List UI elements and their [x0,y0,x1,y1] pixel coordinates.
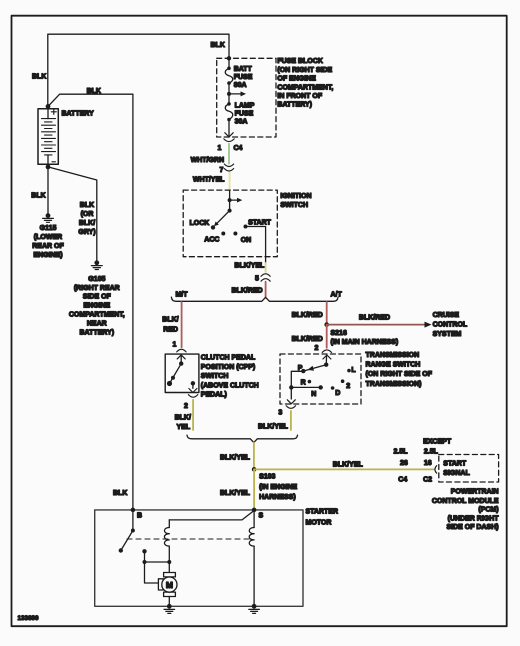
svg-text:C4: C4 [398,476,407,483]
svg-text:S216: S216 [331,330,347,337]
svg-text:S103: S103 [259,474,275,481]
svg-text:POSITION (CPP): POSITION (CPP) [201,364,255,371]
wire to fuse block exit [228,120,230,136]
svg-text:BLK/YEL: BLK/YEL [234,262,265,269]
svg-text:S: S [259,513,264,520]
svg-text:D: D [335,390,340,397]
svg-text:BATTERY: BATTERY [62,110,95,117]
svg-text:(OR: (OR [81,211,94,218]
svg-text:STARTER: STARTER [306,509,339,516]
svg-text:N: N [311,391,316,398]
svg-text:2: 2 [315,345,319,352]
label POWERTRAIN CONTROL MODULE (PCM) (UNDER RIGHT SIDE OF DASH) [432,488,499,531]
svg-text:BLK: BLK [31,193,45,200]
svg-text:SWITCH: SWITCH [280,202,308,209]
svg-text:CRUISE: CRUISE [433,312,460,319]
svg-text:YEL: YEL [177,424,191,431]
svg-text:BLK/YEL: BLK/YEL [220,455,251,462]
svg-text:BLK/: BLK/ [79,220,95,227]
wire WHT/YEL [229,173,231,191]
label EXCEPT 2.5L 16 C2 column [423,439,452,484]
starter motor box [95,510,303,606]
svg-text:(ON RIGHT SIDE: (ON RIGHT SIDE [277,67,332,74]
node battery negative terminal [46,165,51,170]
connector range switch cavity 3 (cup) [286,406,295,409]
svg-text:FUSE: FUSE [235,110,254,117]
svg-text:2.5L: 2.5L [424,449,439,456]
wire BLK/YEL S103 to PCM [254,468,433,470]
svg-text:(ABOVE CLUTCH: (ABOVE CLUTCH [201,382,259,389]
wire S to windings [169,511,254,520]
svg-text:ENGINE: ENGINE [83,303,110,310]
svg-text:3: 3 [278,410,282,417]
svg-text:M/T: M/T [176,291,189,298]
svg-text:BLK: BLK [87,88,101,95]
svg-text:MOTOR: MOTOR [306,519,332,526]
svg-text:BLK/YEL: BLK/YEL [258,423,289,430]
connector 7 (inline) [220,164,234,174]
wire WHT/GRN [228,144,230,164]
brace merge [187,435,298,442]
wire BLK/RED S216 to range switch [326,325,328,348]
svg-text:5: 5 [255,275,259,282]
node S terminal [252,508,257,513]
svg-text:SYSTEM: SYSTEM [433,331,462,338]
ground G105 [91,260,102,269]
wire BLK battery(+) to fuse block [48,34,229,106]
node START [244,225,248,229]
label BLK (OR BLK/ GRY) [78,202,95,236]
svg-text:(ON RIGHT SIDE OF: (ON RIGHT SIDE OF [366,371,433,378]
fuse block box (dashed) [217,58,276,137]
svg-text:1: 1 [218,145,222,152]
svg-text:START: START [248,219,272,226]
splice S216 [324,322,329,327]
wire BLK/YEL from CPP [192,400,194,430]
node fuse block feed junction [227,56,231,60]
connector 5 (inline) [255,274,270,283]
svg-text:GRY): GRY) [78,229,95,236]
svg-text:M: M [166,580,173,590]
ignition switch box (dashed) [183,190,277,257]
svg-text:TRANSMISSION: TRANSMISSION [366,352,420,359]
svg-text:B: B [137,513,142,520]
svg-text:2: 2 [184,403,188,410]
svg-text:BLK/RED: BLK/RED [292,312,323,319]
label FUSE BLOCK callout [277,58,333,108]
svg-text:IGNITION: IGNITION [280,193,311,200]
node 2 [341,379,345,383]
svg-text:(LOWER: (LOWER [34,234,62,241]
svg-text:CONTROL: CONTROL [433,322,468,329]
svg-text:L: L [351,367,356,374]
CPP switch internals [167,355,197,393]
svg-text:P: P [298,365,303,372]
svg-text:80A: 80A [234,82,247,89]
svg-text:WHT/YEL: WHT/YEL [193,176,225,183]
svg-text:ON: ON [241,237,252,244]
ground G115 [43,213,54,222]
ground starter motor [164,604,175,614]
svg-text:IN FRONT OF: IN FRONT OF [277,93,322,100]
label CRUISE CONTROL SYSTEM [433,312,468,338]
svg-text:BLK/YEL: BLK/YEL [220,490,251,497]
connector C4 cavity 1 (arrow into cup) [218,133,243,152]
range switch internals [287,355,331,404]
wire between fuses [228,83,230,104]
node B terminal [131,508,136,513]
battery [38,106,58,166]
node battery positive terminal [46,104,51,109]
node D [331,386,335,390]
svg-text:BLK/: BLK/ [175,415,191,422]
svg-text:2: 2 [346,383,350,390]
svg-text:BLK: BLK [80,202,94,209]
svg-text:PEDAL): PEDAL) [201,392,227,399]
wire BLK/YEL S103 to starter S [253,469,255,510]
svg-text:BLK/: BLK/ [162,317,178,324]
svg-text:A/T: A/T [331,291,343,298]
label TRANSMISSION RANGE SWITCH (ON RIGHT SIDE OF TRANSMISSION) [366,352,433,388]
svg-text:FUSE: FUSE [234,74,253,81]
svg-text:REAR OF: REAR OF [32,243,64,250]
svg-text:C2: C2 [423,476,432,483]
svg-text:26: 26 [400,460,408,467]
svg-text:(IN MAIN HARNESS): (IN MAIN HARNESS) [331,339,399,346]
svg-text:2.5L: 2.5L [394,449,409,456]
node R [308,380,312,384]
svg-text:BLK: BLK [113,490,127,497]
brace split M/T A/T [171,297,338,301]
svg-text:(IN ENGINE: (IN ENGINE [259,484,297,491]
ignition switch internals [211,190,243,229]
wire BLK/YEL from range switch [290,411,292,430]
svg-text:BLK: BLK [211,42,225,49]
svg-text:BLK: BLK [32,74,46,81]
connector CPP cavity 2 (cup) [188,395,197,398]
svg-text:CONTROL MODULE: CONTROL MODULE [432,498,499,505]
PCM box (dashed) [439,455,499,483]
label G115 (LOWER REAR OF ENGINE) [32,225,64,259]
svg-text:BLK/RED: BLK/RED [359,315,390,322]
svg-text:TRANSMISSION): TRANSMISSION) [366,381,422,388]
fuse BATT FUSE 80A [225,66,252,89]
svg-text:BATT: BATT [234,66,253,73]
svg-text:NEAR: NEAR [87,320,107,327]
svg-text:(RIGHT REAR: (RIGHT REAR [74,285,120,292]
motor M [158,562,177,606]
svg-text:LAMP: LAMP [235,103,255,110]
transmission range switch box (dashed) [280,354,361,404]
wire BLK battery(-) to G115 [47,167,49,214]
starter contact pole [142,549,171,583]
svg-text:WHT/GRN: WHT/GRN [191,157,224,164]
svg-text:COMPARTMENT,: COMPARTMENT, [69,312,125,319]
svg-text:EXCEPT: EXCEPT [423,439,452,446]
starter pull-in winding [164,520,169,562]
svg-text:(UNDER RIGHT: (UNDER RIGHT [448,515,500,522]
wire BLK/RED to cruise control (arrow) [327,315,432,328]
svg-text:ACC: ACC [204,236,219,243]
svg-text:RED: RED [163,326,178,333]
node L [347,369,351,373]
svg-text:CLUTCH PEDAL: CLUTCH PEDAL [201,355,256,362]
svg-text:SIDE OF DASH): SIDE OF DASH) [446,524,498,531]
fuse LAMP FUSE 30A [225,102,255,125]
wire fuse feed [228,58,230,68]
clutch pedal position switch box [165,354,199,392]
mechanical linkage (dashed) [127,538,253,540]
svg-text:OF ENGINE: OF ENGINE [277,76,316,83]
svg-text:BATTERY): BATTERY) [79,329,114,336]
svg-text:30A: 30A [235,118,248,125]
wire BLK (OR BLK/GRY) battery(-) to G105 [48,167,97,262]
svg-text:BLK/RED: BLK/RED [292,336,323,343]
wire BLK/RED A/T branch [326,302,328,325]
wire START to box exit [246,227,266,257]
svg-text:SIGNAL: SIGNAL [443,470,470,477]
wire BLK/RED to brace [265,282,267,297]
svg-text:BLK/YEL: BLK/YEL [333,462,364,469]
node ON [233,232,237,236]
svg-text:HARNESS): HARNESS) [259,494,296,501]
svg-text:G115: G115 [40,225,57,232]
svg-text:RANGE SWITCH: RANGE SWITCH [366,362,421,369]
svg-text:START: START [443,461,467,468]
svg-text:133690: 133690 [18,615,40,622]
connector CPP cavity 1 (cup) [177,349,186,352]
splice S103 [252,467,257,472]
label 2.5L 26 C4 column [394,449,409,484]
node fuse tap with arrow [227,91,246,96]
svg-text:POWERTRAIN: POWERTRAIN [451,488,499,495]
svg-text:(PCM): (PCM) [478,507,498,514]
label G105 (RIGHT REAR SIDE OF ENGINE COMPARTMENT, NEAR BATTERY) [69,276,125,336]
label CLUTCH PEDAL POSITION (CPP) SWITCH (ABOVE CLUTCH PEDAL) [201,355,259,399]
svg-text:16: 16 [424,460,432,467]
svg-text:COMPARTMENT,: COMPARTMENT, [277,84,333,91]
svg-text:R: R [301,379,306,386]
svg-text:1: 1 [173,342,177,349]
svg-text:BLK/RED: BLK/RED [232,288,263,295]
starter solenoid contact switch (B side) [119,510,135,553]
svg-text:SIDE OF: SIDE OF [83,294,112,301]
svg-text:C4: C4 [234,145,243,152]
svg-text:G105: G105 [88,276,105,283]
connector PCM (cup) [435,466,437,474]
svg-text:7: 7 [220,167,224,174]
node ACC [221,232,225,236]
svg-text:FUSE BLOCK: FUSE BLOCK [277,58,323,65]
svg-text:LOCK: LOCK [190,220,210,227]
svg-text:BATTERY): BATTERY) [277,102,312,109]
wire BLK/RED M/T branch [181,302,183,347]
ground starter solenoid [249,604,260,614]
wire BLK/YEL below ignition switch [265,257,267,263]
connector range switch cavity 2 (cup) [322,350,331,353]
starter hold-in winding [249,510,254,606]
wire BLK battery(+) to starter B [48,94,133,510]
svg-text:SWITCH: SWITCH [201,373,229,380]
svg-text:ENGINE): ENGINE) [33,252,62,259]
wire BLK/YEL brace to S103 [253,443,255,470]
